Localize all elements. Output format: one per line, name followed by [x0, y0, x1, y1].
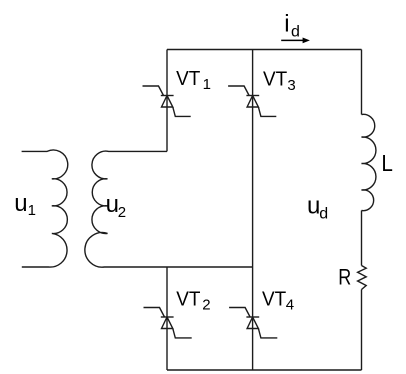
svg-text:d: d — [319, 205, 328, 222]
wire right bridge leg (through VT3 and VT4) — [252, 50, 254, 371]
svg-text:4: 4 — [286, 296, 294, 313]
transformer primary winding u1 — [22, 150, 68, 267]
thyristor VT2 — [144, 308, 192, 338]
thyristor VT3 — [228, 86, 276, 116]
thyristor VT4 — [229, 308, 277, 338]
svg-text:VT: VT — [176, 288, 201, 311]
wire load branch lower segment — [361, 290, 363, 371]
svg-text:VT: VT — [263, 68, 288, 91]
wire bottom DC rail — [167, 369, 362, 371]
transformer secondary winding u2 — [85, 151, 253, 267]
svg-text:2: 2 — [118, 204, 126, 221]
thyristor VT1 — [143, 86, 191, 116]
wire load branch middle segment — [361, 211, 363, 266]
svg-text:3: 3 — [287, 77, 295, 94]
wire left bridge leg lower (through VT2) — [166, 267, 168, 370]
current arrow id — [281, 38, 310, 44]
svg-text:L: L — [381, 150, 393, 176]
wire top DC rail — [167, 49, 362, 51]
inductor L — [362, 114, 376, 210]
svg-text:VT: VT — [262, 288, 287, 311]
svg-text:i: i — [284, 11, 289, 38]
svg-text:R: R — [338, 265, 351, 290]
svg-text:u: u — [14, 190, 27, 217]
svg-text:VT: VT — [176, 67, 201, 90]
wire left bridge leg upper (through VT1) — [166, 50, 168, 152]
resistor R — [358, 266, 367, 290]
wire load branch upper segment — [361, 50, 363, 115]
svg-text:1: 1 — [28, 202, 36, 219]
svg-text:1: 1 — [203, 76, 211, 93]
svg-text:d: d — [291, 24, 300, 41]
svg-text:2: 2 — [202, 296, 210, 313]
